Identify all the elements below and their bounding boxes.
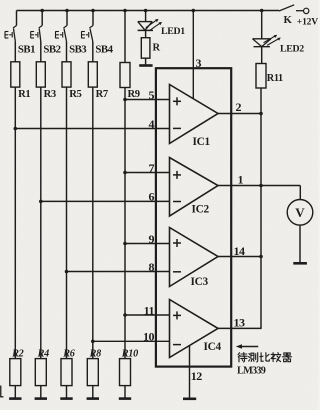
wire R8 to ground: [92, 386, 94, 398]
node bus junction R9 column: [123, 9, 127, 13]
resistor R2: [10, 359, 21, 386]
svg-text:R3: R3: [44, 89, 56, 100]
svg-text:V: V: [295, 205, 305, 220]
svg-text:LM339: LM339: [237, 365, 266, 376]
wire to voltmeter: [299, 186, 301, 200]
node bus junction SB3: [65, 9, 69, 13]
wire pin 4 from R1 column: [15, 128, 169, 130]
wire pin 12 to ground: [189, 345, 191, 398]
resistor R9: [120, 63, 130, 88]
label 待测比较器 (comparator under test): [238, 353, 292, 362]
node junction pin 9 at R9 column: [123, 242, 127, 246]
IC package box LM339: [156, 68, 231, 366]
svg-text:LED2: LED2: [280, 43, 304, 54]
LED LED1: [138, 19, 163, 31]
wire R1-R2 column: [14, 87, 16, 359]
svg-text:2: 2: [236, 100, 242, 114]
svg-text:SB2: SB2: [43, 44, 60, 56]
wire LED2 to R11: [261, 47, 263, 64]
ground below R6: [60, 397, 72, 400]
svg-text:R4: R4: [37, 349, 49, 360]
ground below R: [139, 64, 152, 67]
LED LED2: [253, 35, 281, 47]
switch SB2 (pushbutton): [31, 11, 43, 62]
svg-text:R: R: [153, 42, 161, 53]
resistor R7: [88, 62, 97, 87]
resistor R6: [61, 359, 72, 386]
node junction pin 11 at R9 column: [123, 313, 127, 317]
wire pin 10 from R7 column: [93, 340, 170, 342]
wire LED1 to R: [145, 30, 147, 37]
node junction pin 2: [259, 112, 263, 116]
wire pin 2 output IC1: [218, 113, 261, 115]
wire R10 to ground: [124, 386, 126, 398]
svg-text:8: 8: [149, 260, 155, 274]
op-amp IC1 (comparator): [170, 85, 219, 144]
node junction pin 5 at R9 column: [123, 98, 127, 102]
svg-text:R1: R1: [18, 89, 30, 100]
node junction pin 7 at R9 column: [123, 171, 127, 175]
svg-text:6: 6: [149, 190, 155, 204]
op-amp IC2 (comparator): [170, 158, 219, 217]
wire pin 11 from R9 column: [125, 314, 170, 316]
svg-text:SB1: SB1: [18, 44, 35, 56]
node bus junction LED1 column: [144, 9, 148, 13]
svg-text:R2: R2: [11, 349, 23, 360]
svg-text:+12V: +12V: [297, 16, 318, 27]
voltmeter V: [287, 200, 313, 226]
node bus junction LED2 column: [260, 9, 264, 13]
switch SB3 (pushbutton): [56, 11, 68, 62]
wire K to terminal: [296, 10, 303, 12]
svg-text:1: 1: [238, 173, 244, 187]
svg-text:R8: R8: [89, 349, 101, 360]
terminal circle +12V: [304, 8, 309, 13]
op-amp IC4 (comparator): [170, 300, 219, 358]
switch SB1 (pushbutton): [5, 11, 17, 62]
svg-text:R9: R9: [128, 89, 140, 100]
wire R3-R4 column: [40, 87, 42, 359]
resistor R8: [87, 359, 98, 386]
switch K: [279, 5, 294, 11]
ground below R4: [35, 397, 47, 400]
svg-text:12: 12: [191, 369, 203, 383]
resistor R3: [36, 62, 45, 87]
resistor R10: [120, 359, 131, 386]
svg-text:14: 14: [234, 244, 246, 258]
node junction pin 1: [259, 184, 263, 188]
wire R7-R8 column: [92, 87, 94, 359]
svg-text:IC1: IC1: [193, 136, 211, 148]
ground below R2: [9, 397, 21, 400]
svg-text:13: 13: [234, 316, 246, 330]
wire pin 5 from R9 column: [125, 99, 170, 101]
svg-text:R5: R5: [69, 89, 81, 100]
ground below R10: [119, 397, 131, 400]
svg-text:LED1: LED1: [161, 26, 185, 37]
svg-text:R11: R11: [267, 73, 283, 84]
wire pin 7 from R9 column: [125, 172, 170, 174]
wire pin 3 V+: [192, 11, 194, 99]
node bus junction SB2: [40, 9, 44, 13]
node junction pin 10 at R7 column: [91, 340, 95, 344]
wire pin 13 output IC4: [218, 327, 262, 329]
resistor R: [141, 38, 150, 59]
wire output bus right: [260, 88, 262, 328]
svg-text:R10: R10: [121, 349, 138, 360]
resistor R11: [256, 64, 266, 89]
node bus junction SB4: [91, 9, 95, 13]
svg-text:5: 5: [149, 88, 155, 102]
svg-text:10: 10: [143, 330, 155, 344]
node junction pin 4 at R1 column: [14, 127, 18, 131]
svg-text:9: 9: [149, 232, 155, 246]
svg-text:IC4: IC4: [204, 341, 222, 353]
svg-text:K: K: [284, 14, 293, 26]
paper background: [0, 0, 1, 1]
svg-text:11: 11: [144, 303, 155, 317]
svg-text:IC2: IC2: [192, 203, 210, 215]
node junction pin 14: [259, 255, 263, 259]
node bus junction pin3 stub: [192, 9, 196, 13]
ground below voltmeter: [293, 262, 307, 265]
wire top +12V bus: [17, 10, 280, 12]
svg-text:IC3: IC3: [191, 276, 209, 288]
svg-text:7: 7: [149, 161, 155, 175]
wire R5-R6 column: [66, 87, 68, 359]
svg-text:SB4: SB4: [95, 44, 113, 56]
wire pin 9 from R9 column: [125, 243, 170, 245]
resistor R1: [11, 62, 20, 87]
wire voltmeter to ground: [299, 225, 301, 262]
resistor R4: [35, 359, 46, 386]
ground pin 12: [183, 397, 196, 400]
wire R2 to ground: [14, 386, 16, 398]
annotation arrow to LM339 box: [240, 346, 258, 348]
svg-text:R7: R7: [96, 89, 109, 100]
svg-text:R6: R6: [62, 349, 75, 360]
svg-text:3: 3: [196, 56, 202, 70]
ground below R8: [87, 397, 99, 400]
op-amp IC3 (comparator): [170, 228, 219, 287]
wire R6 to ground: [66, 386, 68, 398]
wire R9-R10 column: [124, 88, 126, 359]
switch SB4 (pushbutton): [82, 11, 94, 62]
wire pin 1 output IC2 to voltmeter: [218, 185, 300, 187]
wire LED1 anode from bus: [145, 11, 147, 22]
wire R to ground: [145, 58, 147, 65]
resistor R5: [62, 62, 71, 87]
wire pin 14 output IC3: [218, 256, 261, 258]
wire pin 8 from R5 column: [67, 271, 170, 273]
node junction pin 8 at R5 column: [65, 270, 69, 274]
wire R9 column from bus: [124, 11, 126, 63]
stray mark bottom-left edge: [0, 386, 3, 397]
svg-text:SB3: SB3: [69, 44, 87, 56]
wire R4 to ground: [40, 386, 42, 398]
wire LED2 from bus: [261, 11, 263, 39]
wire pin 6 from R3 column: [41, 200, 170, 202]
node junction pin 6 at R3 column: [39, 200, 43, 204]
svg-text:4: 4: [149, 117, 155, 131]
